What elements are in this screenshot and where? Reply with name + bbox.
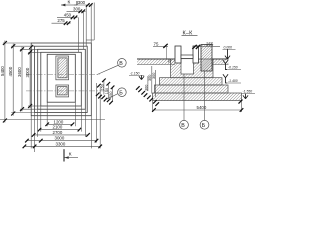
bottom dimension stack [24, 83, 100, 152]
socket opening (white) [181, 59, 194, 74]
svg-text:0.000: 0.000 [224, 45, 233, 49]
svg-text:150: 150 [109, 91, 113, 97]
svg-text:-1.400: -1.400 [228, 79, 238, 83]
svg-text:-0.150: -0.150 [228, 66, 238, 70]
column branch top (hatched) [56, 56, 69, 80]
svg-text:4500: 4500 [8, 66, 13, 76]
axis circle Б (section) [200, 71, 209, 129]
labels left chain (rotated) [0, 66, 30, 78]
svg-text:2100: 2100 [53, 125, 63, 130]
pedestal block [171, 59, 214, 78]
small dims right of plan (steps) [104, 80, 113, 102]
long bottom extension line [0, 119, 105, 121]
svg-text:300: 300 [73, 6, 81, 11]
elevation -1.400 [223, 74, 241, 83]
svg-text:300: 300 [144, 85, 148, 91]
svg-text:50: 50 [167, 59, 171, 63]
top dimension stack [52, 3, 95, 53]
foundation step rect 4 [41, 52, 82, 106]
svg-text:К: К [68, 0, 71, 6]
dim 450 [57, 16, 78, 18]
axis circle B (plan) [98, 59, 127, 75]
svg-text:5400: 5400 [197, 105, 207, 110]
crossbar between branches [181, 55, 193, 59]
svg-text:450: 450 [64, 12, 72, 17]
svg-text:К: К [69, 151, 72, 157]
foundation step rect 2 [35, 46, 88, 112]
left-of-section elevation -1.150 [129, 72, 144, 80]
dim 5400 (section bottom) [152, 100, 243, 112]
svg-text:3600: 3600 [17, 67, 22, 77]
dim 255 [192, 41, 220, 49]
dim line 5400 [4, 41, 6, 123]
axis circle Б (plan) [108, 88, 127, 99]
ticks left chain [3, 41, 33, 123]
bottom ticks [23, 123, 102, 149]
bottom slab [153, 93, 242, 101]
svg-text:3000: 3000 [55, 136, 65, 141]
title K-K [182, 30, 198, 36]
svg-text:150: 150 [100, 84, 104, 90]
elevation 0.000 [223, 45, 236, 59]
svg-text:Б: Б [202, 123, 206, 129]
pedestal outline [47, 54, 75, 102]
svg-text:В: В [119, 61, 123, 67]
axis circle B (section) [180, 74, 189, 129]
svg-text:В: В [181, 123, 185, 129]
svg-text:2700: 2700 [53, 130, 63, 135]
column branch left (above ground) [175, 46, 181, 63]
column branch bottom (hatched) [56, 85, 69, 97]
svg-text:-1.550: -1.550 [243, 90, 253, 94]
svg-text:5400: 5400 [0, 66, 5, 76]
section mark K top [61, 0, 77, 6]
elevation -0.150 [223, 60, 241, 70]
svg-text:Б: Б [119, 91, 123, 97]
extension verticals [78, 17, 80, 52]
svg-text:300: 300 [152, 73, 156, 79]
dim 75 [153, 41, 171, 62]
ground line + hatch band right [212, 59, 229, 65]
elevation -1.550 [242, 90, 256, 99]
dim line 3600 [21, 47, 23, 111]
top stack ticks [64, 3, 93, 25]
dim line 3000 [29, 50, 31, 108]
foundation step rect 3 [38, 49, 86, 109]
top stack labels [57, 0, 85, 23]
svg-text:3000: 3000 [25, 67, 30, 77]
left-of-section step dims [148, 66, 156, 97]
dim line 4500 [12, 44, 14, 116]
foundation step rect 1 (outer) [31, 43, 91, 116]
svg-text:75: 75 [154, 41, 159, 46]
svg-text:300: 300 [78, 0, 86, 5]
svg-text:-1.150: -1.150 [130, 72, 140, 76]
axis line Б (dashed, horizontal) [26, 90, 108, 92]
step 2 [155, 85, 229, 93]
ground line + hatch band left [137, 59, 175, 65]
column branch middle [193, 46, 199, 63]
column right (hatched) [201, 45, 212, 72]
foundation below ground (hatched stepped mass) [153, 59, 242, 101]
dim 300 (1) [74, 4, 93, 6]
axis line B (dashed, horizontal) [26, 74, 100, 76]
section mark K bottom [64, 149, 78, 161]
svg-text:255: 255 [206, 41, 214, 46]
step 1 [160, 78, 223, 85]
dim 275 [52, 22, 71, 24]
svg-text:275: 275 [57, 18, 65, 23]
svg-text:3300: 3300 [56, 142, 66, 147]
svg-text:1200: 1200 [54, 119, 64, 124]
bottom labels [53, 119, 66, 146]
left dimension chain [3, 41, 41, 123]
dim 300 (2) [67, 10, 86, 12]
